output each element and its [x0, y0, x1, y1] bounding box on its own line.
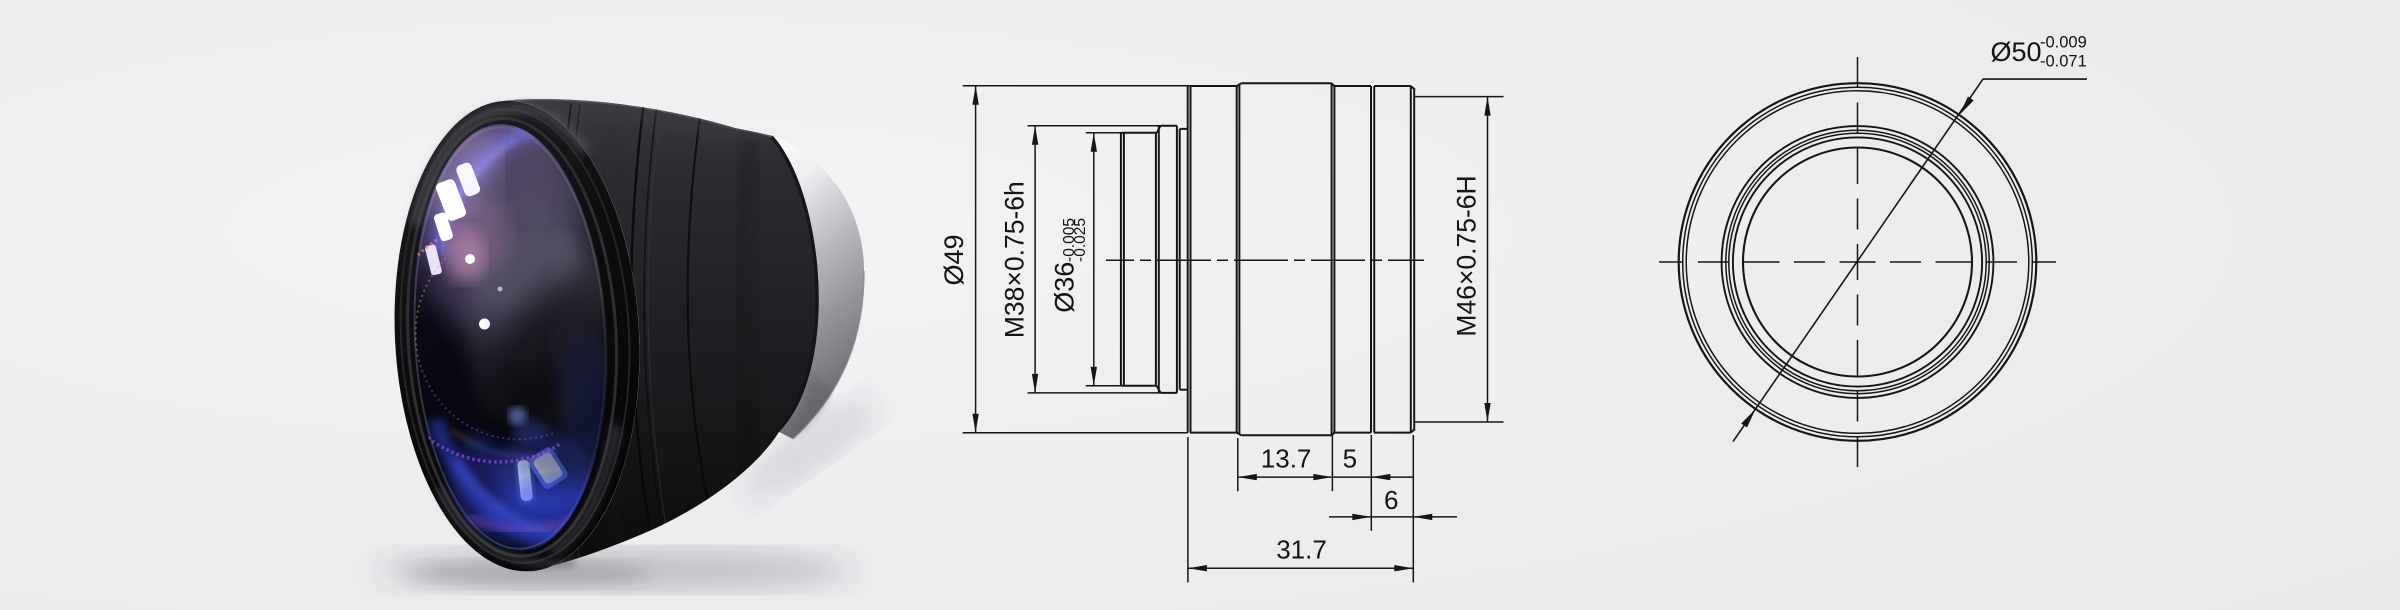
svg-text:6: 6: [1384, 485, 1398, 515]
svg-text:-0.009: -0.009: [2040, 34, 2087, 52]
svg-text:-0.025: -0.025: [1072, 218, 1089, 262]
svg-text:-0.071: -0.071: [2040, 53, 2087, 71]
svg-text:31.7: 31.7: [1276, 535, 1327, 565]
svg-text:M38×0.75-6h: M38×0.75-6h: [1000, 181, 1030, 338]
svg-text:M46×0.75-6H: M46×0.75-6H: [1452, 175, 1482, 336]
svg-text:5: 5: [1343, 443, 1357, 473]
svg-text:Ø50: Ø50: [1991, 37, 2042, 67]
svg-text:Ø49: Ø49: [939, 234, 969, 285]
svg-text:13.7: 13.7: [1261, 443, 1312, 473]
svg-text:Ø36: Ø36: [1050, 262, 1080, 313]
